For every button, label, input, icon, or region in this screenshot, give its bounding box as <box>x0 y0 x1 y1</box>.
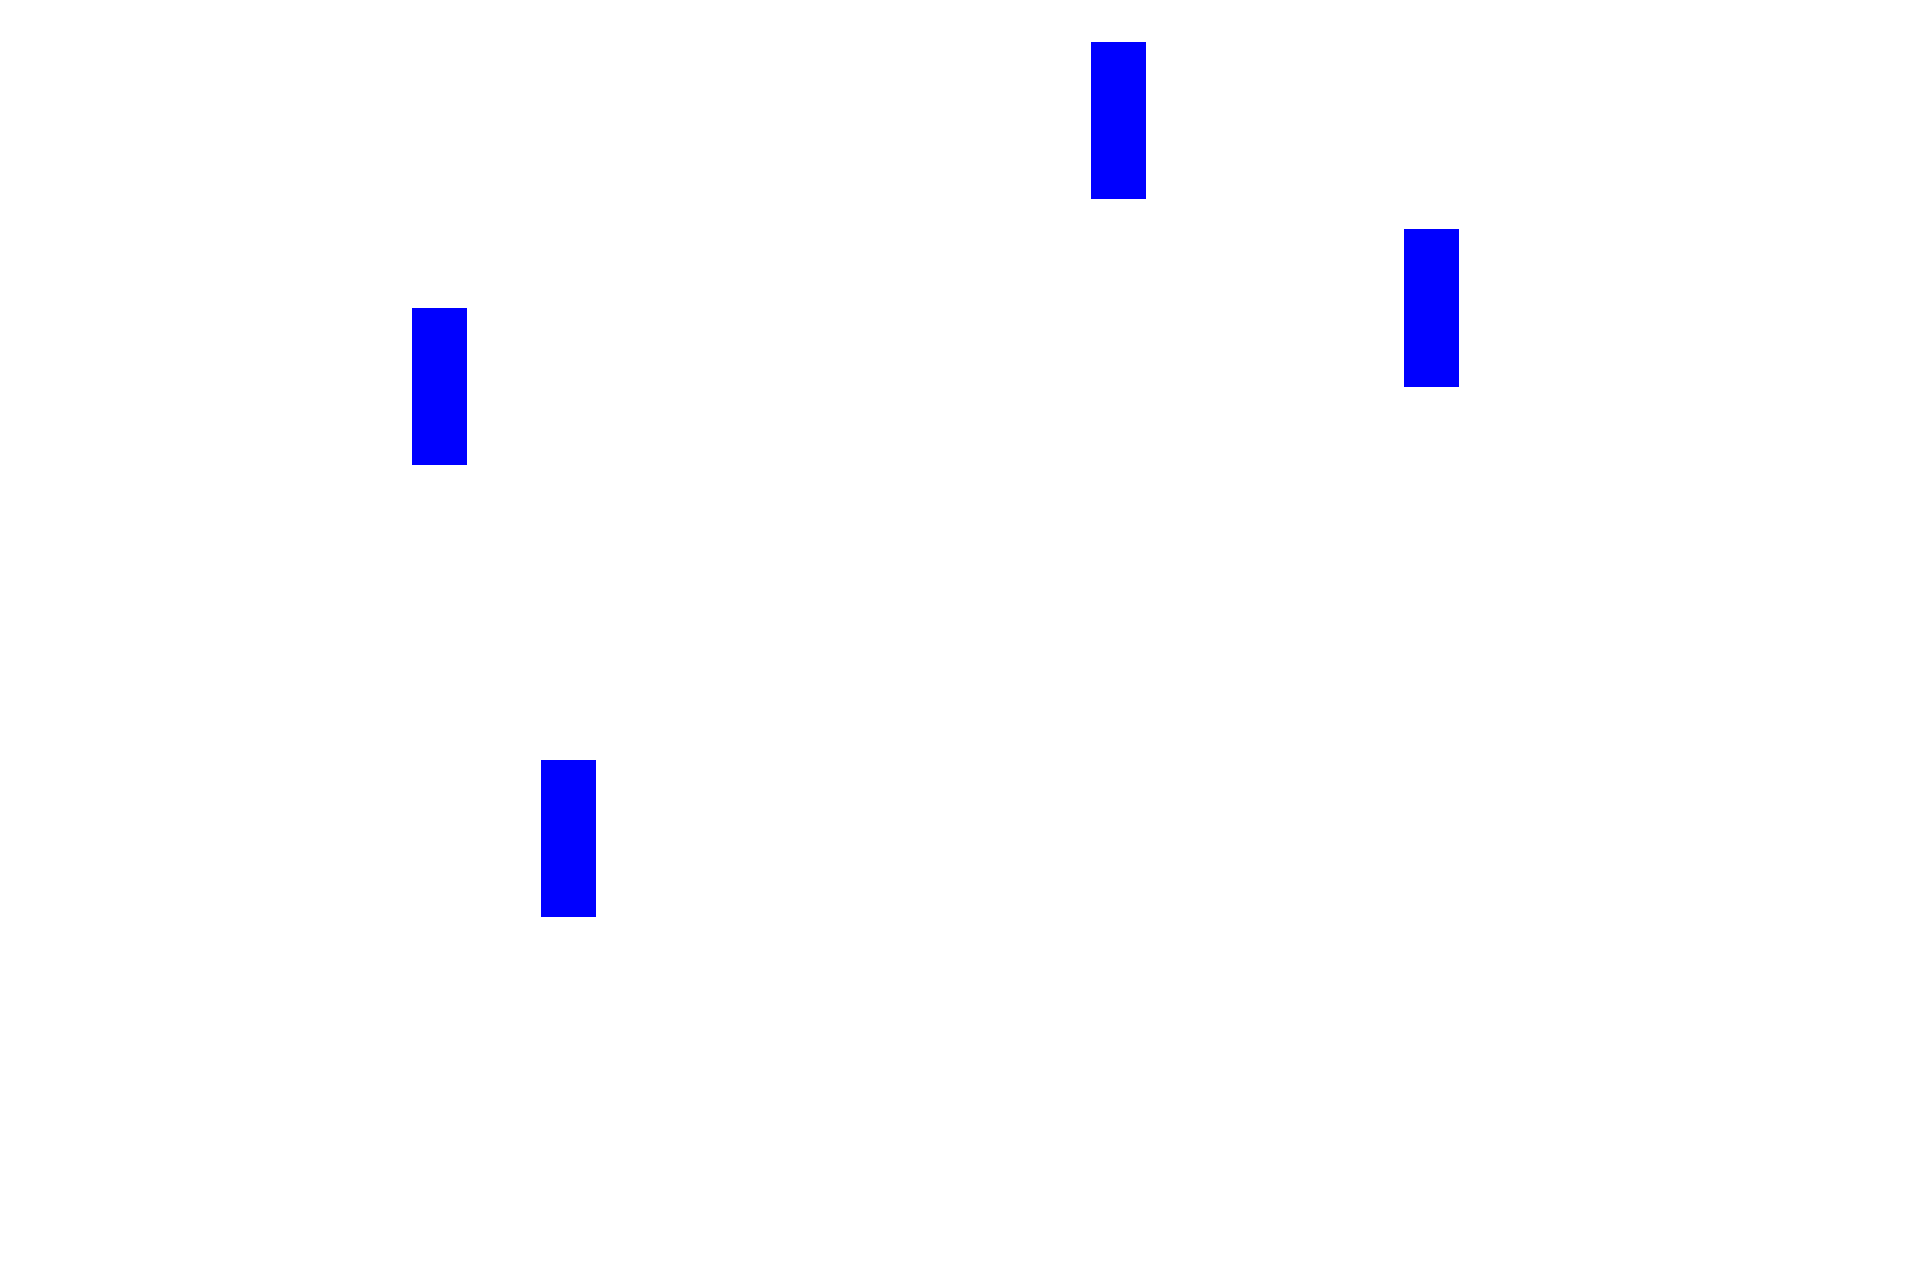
bar 4 (lower left candlestick body) <box>541 760 596 917</box>
bar 2 (top right candlestick body) <box>1404 229 1459 387</box>
bar 1 (top middle candlestick body) <box>1091 42 1146 199</box>
bar 3 (left candlestick body) <box>412 308 467 465</box>
